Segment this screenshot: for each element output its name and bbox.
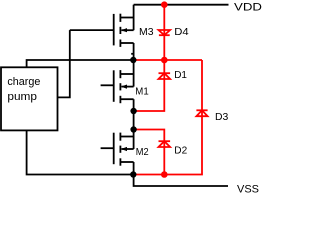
svg-text:M2: M2	[136, 146, 149, 158]
svg-text:D2: D2	[174, 145, 187, 157]
svg-text:M3: M3	[139, 26, 154, 38]
svg-text:D4: D4	[174, 26, 189, 38]
svg-text:VDD: VDD	[234, 1, 262, 13]
svg-text:charge: charge	[7, 76, 40, 88]
svg-text:pump: pump	[7, 91, 37, 103]
svg-text:D1: D1	[174, 69, 187, 81]
svg-text:D3: D3	[215, 111, 228, 123]
svg-text:M1: M1	[135, 86, 149, 98]
svg-text:VSS: VSS	[237, 183, 259, 193]
